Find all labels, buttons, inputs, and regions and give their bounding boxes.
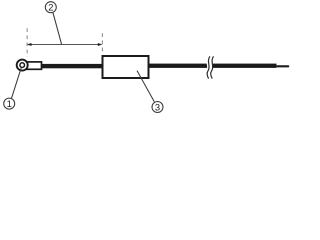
eyelet terminal barrel (item 1 body) [24,62,42,69]
extension line left (dashed) [26,28,28,57]
dimension line (item 2) [28,44,101,46]
eyelet ring outer circle [17,60,28,71]
eyelet ring inner hole [20,63,25,68]
dimension arrow left [27,43,32,46]
dimension arrow right [98,43,103,46]
wire: left rod segment [41,64,104,68]
break mark right curve [211,56,214,78]
break mark white gap [205,56,213,80]
wire: thin tip at right end [276,65,289,67]
break mark left curve [207,56,210,78]
extension line right (dashed) [101,33,103,53]
leader line for callout 2 [53,13,62,45]
wire: rod segment after break [213,64,277,68]
svg-text:1: 1 [7,98,12,109]
callout circle 3 [152,102,163,113]
callout circle 1 [4,98,15,109]
leader line for callout 1 [12,68,22,99]
wire: rod segment between sleeve and break [150,64,208,68]
sleeve / block (item 3) [103,56,149,78]
svg-text:3: 3 [155,101,160,112]
leader line for callout 3 [137,71,154,102]
svg-text:2: 2 [48,2,53,13]
callout circle 2 [45,2,56,13]
